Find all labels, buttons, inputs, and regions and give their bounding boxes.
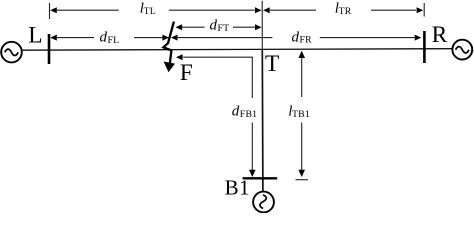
svg-text:d: d: [210, 18, 218, 34]
svg-text:L: L: [28, 22, 42, 48]
svg-text:TB1: TB1: [292, 109, 310, 120]
svg-text:d: d: [292, 29, 300, 45]
svg-text:B1: B1: [225, 176, 250, 200]
svg-text:d: d: [232, 104, 240, 120]
svg-text:TR: TR: [339, 6, 352, 17]
svg-text:FR: FR: [300, 35, 313, 46]
svg-text:TL: TL: [144, 6, 156, 17]
svg-text:F: F: [180, 60, 193, 86]
svg-text:R: R: [432, 22, 448, 48]
svg-text:FT: FT: [218, 23, 230, 34]
svg-text:d: d: [100, 30, 108, 46]
svg-text:T: T: [265, 51, 279, 77]
svg-text:FL: FL: [108, 35, 120, 46]
svg-text:FB1: FB1: [240, 109, 257, 120]
